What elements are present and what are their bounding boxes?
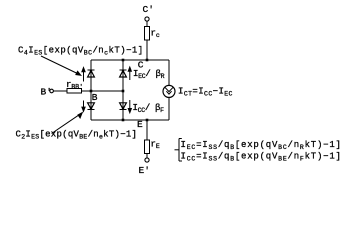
equations brace: [175, 139, 183, 162]
junction dot bottom middle: [122, 119, 125, 122]
diode blob middle bottom: [122, 108, 124, 110]
wire left branch: [90, 60, 92, 120]
label arrow to bottom-left diode: [52, 113, 82, 133]
svg-text:C: C: [138, 60, 144, 71]
svg-text:IEC/ βR: IEC/ βR: [133, 69, 165, 80]
current source ICT: [163, 85, 175, 97]
wire rc to top rail: [146, 40, 148, 60]
current arrow up (middle top): [129, 69, 131, 80]
resistor rc: [145, 27, 150, 41]
wire right branch upper: [168, 60, 170, 85]
junction dot bottom emitter: [146, 119, 149, 122]
wire rbb to node B: [82, 90, 92, 92]
current arrow down (left bottom): [83, 101, 85, 109]
wire B row: [91, 90, 123, 92]
diode base-collector leakage (left top): [88, 69, 95, 71]
diode base-collector IEC/bR (middle top): [120, 69, 127, 71]
wire bottom rail to rE: [146, 120, 148, 140]
svg-text:E: E: [137, 119, 143, 130]
resistor rE: [145, 140, 150, 154]
junction dot node B: [90, 90, 93, 93]
wire middle branch: [122, 60, 124, 120]
svg-text:B': B': [41, 87, 52, 98]
wire rE to E': [146, 154, 148, 158]
junction dot top middle: [122, 59, 125, 62]
svg-text:ICC/ βF: ICC/ βF: [133, 103, 165, 114]
wire B' to rbb: [53, 90, 67, 92]
wire top rail: [91, 59, 169, 61]
current arrow down (middle bottom): [129, 100, 131, 110]
svg-text:IEC=ISS/qB[exp(qVBC/nRkT)−1]: IEC=ISS/qB[exp(qVBC/nRkT)−1]: [181, 140, 342, 151]
terminal E': [145, 158, 149, 162]
current arrow up (left top): [83, 70, 85, 82]
terminal C': [145, 17, 149, 21]
wire bottom rail: [91, 119, 169, 121]
junction dot B row middle: [122, 90, 125, 93]
svg-text:E': E': [139, 165, 150, 176]
terminal B': [50, 89, 54, 93]
resistor rbb': [67, 89, 82, 94]
diode base-emitter leakage (left bottom): [88, 109, 95, 111]
wire C' to rc: [146, 21, 148, 26]
diode blob left bottom: [90, 108, 92, 110]
wire right branch lower: [168, 97, 170, 120]
label arrow to top-left diode: [41, 56, 80, 75]
diode blob middle top: [122, 70, 124, 72]
svg-text:ICC=ISS/qB[exp(qVBE/nFkT)−1]: ICC=ISS/qB[exp(qVBE/nFkT)−1]: [181, 152, 342, 163]
junction dot top collector: [146, 59, 149, 62]
diode blob left top: [90, 70, 92, 72]
svg-text:B: B: [92, 92, 98, 103]
diode base-emitter ICC/bF (middle bottom): [120, 109, 127, 111]
svg-text:C': C': [143, 4, 154, 15]
